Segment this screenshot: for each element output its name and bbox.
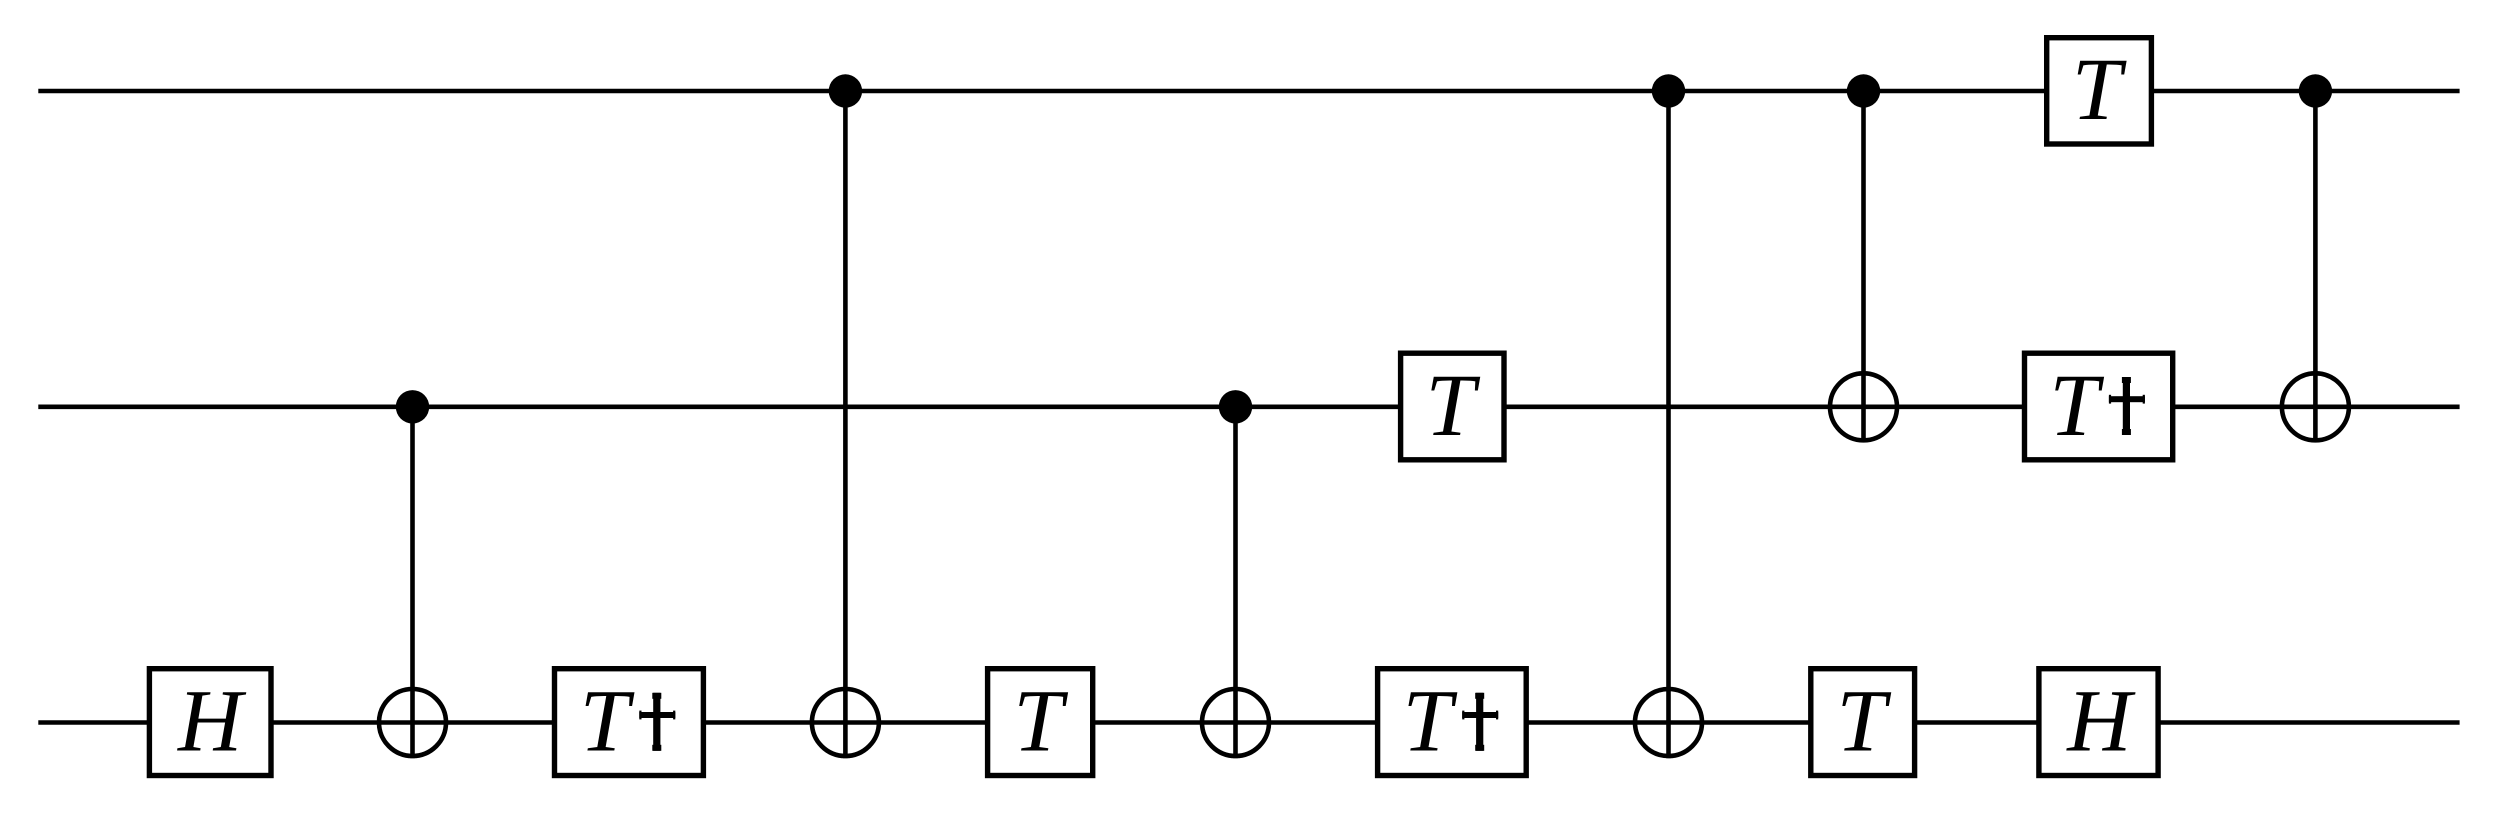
wire CNOT6 vertical q0->q1 bbox=[2313, 91, 2318, 443]
wire CNOT3 vertical q1->q2 bbox=[1233, 407, 1238, 758]
gate Tdg3 q1 dagger bbox=[2109, 377, 2145, 435]
wire CNOT4 vertical q0->q2 bbox=[1666, 91, 1671, 758]
gate T1 q2 box bbox=[988, 669, 1093, 776]
CNOT2 target on q2 bbox=[812, 689, 879, 756]
svg-text:T: T bbox=[1403, 673, 1458, 771]
gate Tdg2 q2 box bbox=[1378, 669, 1527, 776]
gate Tdg3 q1 box bbox=[2025, 353, 2173, 460]
svg-text:T: T bbox=[1426, 357, 1481, 455]
control dot CNOT6 on q0 bbox=[2299, 74, 2332, 107]
control dot CNOT4 on q0 bbox=[1652, 74, 1685, 107]
svg-text:T: T bbox=[580, 673, 635, 771]
wire qubit q0 (top) bbox=[38, 89, 2459, 94]
svg-text:H: H bbox=[2066, 673, 2136, 771]
CNOT5 target on q1 bbox=[1830, 373, 1897, 440]
wire CNOT1 vertical q1->q2 bbox=[410, 407, 415, 758]
control dot CNOT2 on q0 bbox=[829, 74, 862, 107]
gate Tmid q1 box bbox=[1401, 353, 1504, 460]
wire CNOT5 vertical q0->q1 bbox=[1861, 91, 1866, 443]
gate Tdg1 q2 dagger bbox=[639, 693, 675, 751]
gate H2 q2 box bbox=[2039, 669, 2158, 776]
CNOT6 target on q1 bbox=[2282, 373, 2349, 440]
gate Ttop q0 box bbox=[2047, 38, 2152, 144]
wire CNOT2 vertical q0->q2 bbox=[843, 91, 848, 758]
svg-text:T: T bbox=[2072, 41, 2127, 139]
svg-text:H: H bbox=[177, 673, 247, 771]
control dot CNOT5 on q0 bbox=[1847, 74, 1880, 107]
CNOT1 target on q2 bbox=[379, 689, 446, 756]
CNOT4 target on q2 bbox=[1635, 689, 1702, 756]
control dot CNOT1 on q1 bbox=[396, 390, 429, 423]
CNOT3 target on q2 bbox=[1202, 689, 1269, 756]
svg-text:T: T bbox=[1013, 673, 1068, 771]
gate H q2 box bbox=[149, 669, 271, 776]
control dot CNOT3 on q1 bbox=[1219, 390, 1252, 423]
gate Tdg2 q2 dagger bbox=[1462, 693, 1498, 751]
wire qubit q1 (middle) bbox=[38, 404, 2459, 409]
svg-text:T: T bbox=[2049, 357, 2104, 455]
gate Tdg1 q2 box bbox=[555, 669, 704, 776]
gate T2 q2 box bbox=[1811, 669, 1915, 776]
wire qubit q2 (bottom) bbox=[38, 720, 2459, 725]
svg-text:T: T bbox=[1836, 673, 1891, 771]
